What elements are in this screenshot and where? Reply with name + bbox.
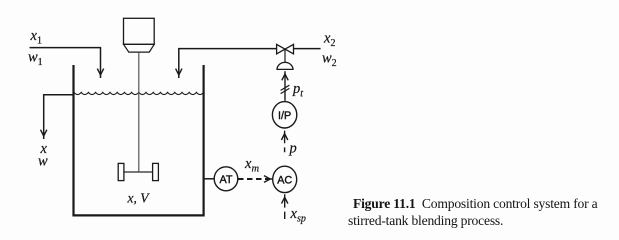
- svg-text:AC: AC: [277, 175, 292, 187]
- svg-text:p: p: [289, 141, 297, 157]
- tank walls: [72, 65, 204, 215]
- pneumatic slashes: [281, 85, 290, 93]
- impeller right paddle: [153, 163, 159, 180]
- valve actuator dome: [277, 62, 293, 69]
- wire valve outlet right: [294, 48, 321, 50]
- control valve body: [277, 44, 294, 54]
- svg-text:I/P: I/P: [278, 110, 291, 122]
- dashed wire AT to AC: [238, 178, 270, 180]
- svg-text:x2: x2: [323, 31, 335, 50]
- svg-text:x1: x1: [30, 28, 42, 47]
- liquid surface: [74, 92, 204, 94]
- svg-text:xm: xm: [244, 156, 259, 175]
- transmitter AT: [214, 167, 238, 191]
- svg-text:w1: w1: [28, 50, 43, 69]
- arrow inlet 1: [97, 69, 103, 75]
- arrow inlet 2: [176, 69, 182, 75]
- arrow outlet: [41, 130, 47, 136]
- impeller bar: [121, 171, 156, 173]
- motor cone: [124, 44, 155, 52]
- stirrer shaft: [138, 53, 140, 172]
- signal wire AC to I/P: [284, 131, 286, 153]
- arrow setpoint into AC: [282, 197, 288, 203]
- wire tank to AT: [204, 178, 215, 180]
- setpoint wire: [284, 194, 286, 219]
- svg-text:w: w: [38, 154, 48, 170]
- motor body: [124, 18, 155, 44]
- caption Figure 11.1: [348, 195, 604, 231]
- wire outlet: [44, 95, 74, 139]
- svg-text:x, V: x, V: [127, 191, 151, 206]
- svg-text:AT: AT: [220, 174, 233, 186]
- svg-text:pt: pt: [292, 81, 303, 100]
- signal wire I/P to valve: [284, 71, 286, 101]
- wire inlet 1: [30, 48, 101, 78]
- wire inlet 2 from valve: [179, 49, 277, 78]
- valve stem: [284, 49, 286, 62]
- arrow into I/P: [281, 134, 287, 140]
- impeller left paddle: [118, 163, 124, 180]
- arrow into dome: [282, 74, 288, 80]
- arrow xm into AC: [264, 176, 273, 183]
- transducer I/P: [272, 102, 296, 128]
- svg-text:w2: w2: [322, 51, 337, 70]
- svg-text:xsp: xsp: [290, 206, 306, 225]
- controller AC: [273, 166, 297, 192]
